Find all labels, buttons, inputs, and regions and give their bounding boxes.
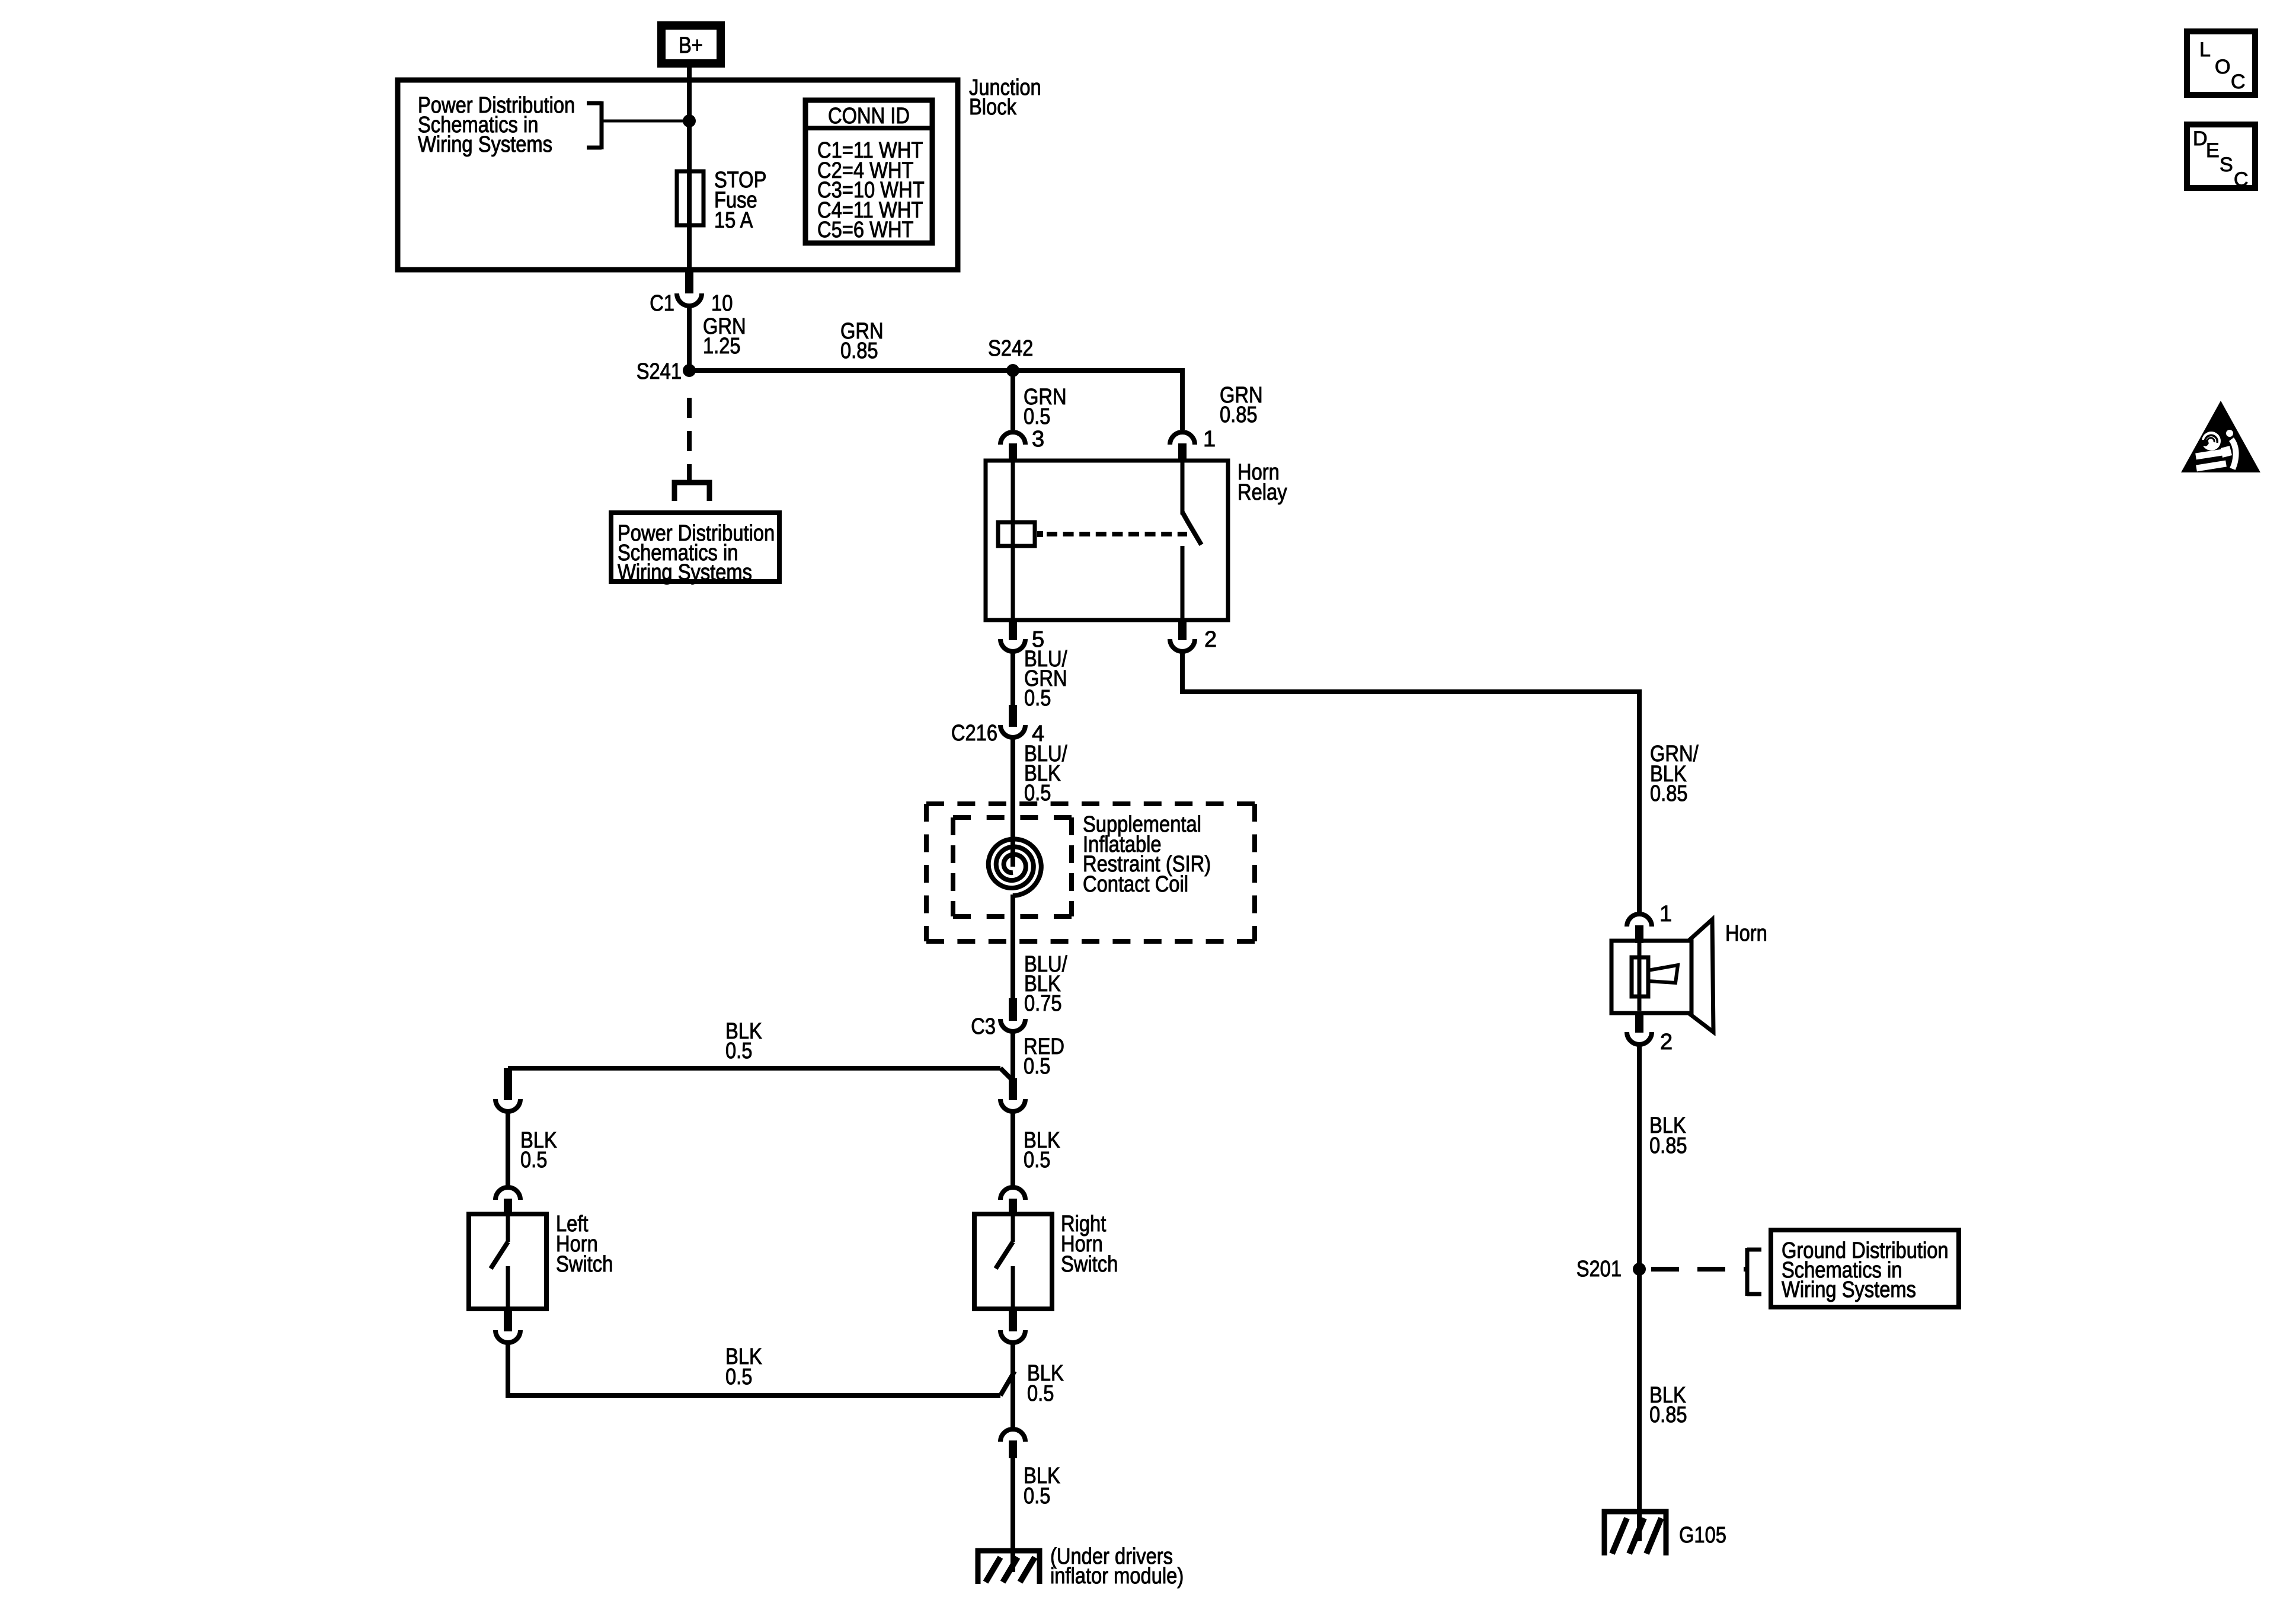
- svg-text:1: 1: [1659, 902, 1672, 927]
- reference box Power Distribution: [611, 513, 779, 582]
- ground connector pin: [1009, 1440, 1017, 1458]
- wire node to fuse: [687, 121, 692, 174]
- LOC icon box: [2187, 31, 2255, 95]
- horn driver element: [1632, 957, 1648, 996]
- connector pin 1 pin: [1178, 443, 1187, 462]
- connector C1 pin: [685, 270, 693, 293]
- connector pin 5 pin: [1009, 620, 1017, 640]
- connector C216 pin: [1009, 705, 1017, 727]
- right switch dome: [1000, 1187, 1025, 1200]
- wire right branch: [1011, 1111, 1015, 1186]
- svg-text:0.5: 0.5: [1024, 404, 1050, 429]
- connector pin 5 cup: [1000, 639, 1025, 651]
- svg-text:0.5: 0.5: [1024, 1148, 1050, 1173]
- right branch pin: [1009, 1078, 1017, 1100]
- wire diagonal join bottom: [1000, 1371, 1015, 1395]
- svg-text:L: L: [2199, 39, 2211, 61]
- SIR outer dashed box: [926, 801, 1255, 806]
- junction block outline: [398, 80, 958, 270]
- svg-text:C216: C216: [951, 721, 997, 746]
- svg-text:G105: G105: [1679, 1523, 1726, 1548]
- relay switch blade: [1182, 512, 1201, 545]
- right switch bottom cup: [1000, 1330, 1025, 1343]
- left switch pin: [504, 1199, 512, 1216]
- svg-text:Wiring Systems: Wiring Systems: [618, 560, 752, 585]
- connector pin 2 cup: [1170, 639, 1195, 651]
- svg-text:O: O: [2215, 56, 2230, 78]
- relay coil wire: [1011, 462, 1015, 620]
- SIR contact coil spiral: [989, 839, 1041, 896]
- wire horn to G105: [1637, 1044, 1642, 1541]
- DESC icon box: [2187, 124, 2255, 188]
- bracket for power distribution reference: [600, 101, 604, 149]
- svg-text:0.85: 0.85: [1650, 781, 1688, 806]
- reference staple symbol: [674, 483, 709, 501]
- svg-text:Contact Coil: Contact Coil: [1083, 872, 1188, 897]
- dashed wire S201 to reference: [1651, 1267, 1747, 1272]
- wire C216 to SIR coil: [1011, 737, 1015, 867]
- svg-text:2: 2: [1660, 1030, 1673, 1055]
- svg-text:S: S: [2220, 154, 2233, 176]
- svg-text:E: E: [2206, 139, 2220, 162]
- ground distribution reference box: [1771, 1230, 1959, 1307]
- svg-text:CONN ID: CONN ID: [828, 104, 910, 129]
- svg-text:0.85: 0.85: [1220, 402, 1258, 427]
- ground connector dome: [1000, 1429, 1025, 1442]
- svg-text:0.5: 0.5: [1024, 686, 1051, 711]
- wire right switch to ground connector: [1011, 1343, 1015, 1427]
- wire SIR coil to C3: [1011, 895, 1015, 1001]
- connector pin 3 dome: [1000, 432, 1025, 445]
- svg-text:1: 1: [1203, 427, 1216, 452]
- relay dashed link: [1047, 532, 1187, 536]
- left branch cup: [495, 1099, 520, 1111]
- svg-text:0.5: 0.5: [1024, 1054, 1050, 1079]
- svg-text:1.25: 1.25: [703, 334, 741, 359]
- svg-text:0.75: 0.75: [1024, 991, 1062, 1016]
- horn relay box: [986, 461, 1228, 620]
- horn speaker cone: [1689, 919, 1713, 1032]
- splice S201 dot: [1633, 1263, 1646, 1276]
- right switch bottom pin: [1009, 1309, 1017, 1331]
- wire to under-dash ground: [1011, 1458, 1015, 1572]
- SIR warning triangle icon: [2181, 401, 2260, 472]
- right branch cup: [1000, 1099, 1025, 1111]
- svg-text:D: D: [2193, 127, 2208, 150]
- connector C3 cup: [1000, 1019, 1025, 1031]
- svg-text:2: 2: [1204, 627, 1217, 652]
- svg-text:3: 3: [1032, 427, 1044, 452]
- left switch blade: [491, 1242, 508, 1269]
- svg-text:B+: B+: [679, 33, 703, 58]
- relay coil: [998, 522, 1035, 546]
- wire B+ to junction block: [687, 63, 692, 124]
- wire left down and bottom run: [508, 1343, 1000, 1395]
- svg-text:C3: C3: [971, 1014, 996, 1039]
- svg-text:0.5: 0.5: [1024, 1484, 1050, 1509]
- svg-text:Horn: Horn: [1725, 921, 1767, 946]
- splice S241 dot: [683, 364, 696, 377]
- right switch blade: [996, 1242, 1013, 1269]
- dashed wire S241 to reference: [687, 398, 692, 481]
- left horn switch box: [469, 1214, 546, 1309]
- horn pin 2 cup: [1627, 1032, 1652, 1044]
- fuse STOP 15A symbol: [677, 171, 703, 225]
- right switch contact: [1011, 1266, 1015, 1306]
- wire S242 down to relay pin3: [1011, 370, 1015, 430]
- connector pin 3 pin: [1009, 443, 1017, 462]
- left switch bottom cup: [495, 1330, 520, 1343]
- connector C3 pin: [1009, 998, 1017, 1021]
- connector C1 cup: [677, 293, 702, 306]
- right switch pin: [1009, 1199, 1017, 1216]
- ground symbol G105: [1604, 1512, 1666, 1555]
- wire left branch: [506, 1111, 510, 1186]
- power symbol B+ box: [661, 25, 721, 63]
- svg-text:Block: Block: [969, 95, 1017, 120]
- relay switch wire from pin 1: [1181, 462, 1185, 515]
- relay switch contact: [1181, 546, 1185, 620]
- wire pin5 to C216: [1011, 651, 1015, 707]
- left switch bottom pin: [504, 1309, 512, 1331]
- svg-text:inflator module): inflator module): [1050, 1564, 1184, 1589]
- horn trumpet: [1648, 965, 1678, 983]
- svg-text:0.5: 0.5: [725, 1039, 752, 1063]
- svg-text:15 A: 15 A: [714, 208, 753, 233]
- connector pin 2 pin: [1178, 620, 1187, 640]
- CONN ID separator: [805, 126, 932, 130]
- left branch pin: [504, 1068, 512, 1100]
- svg-text:S242: S242: [988, 336, 1033, 361]
- svg-text:Switch: Switch: [556, 1252, 613, 1277]
- svg-text:0.85: 0.85: [1649, 1403, 1687, 1427]
- svg-text:S241: S241: [637, 359, 682, 384]
- horn box: [1611, 941, 1691, 1013]
- right horn switch box: [974, 1214, 1052, 1309]
- wire bracket to node: [602, 120, 689, 123]
- svg-text:C1: C1: [650, 291, 674, 316]
- wire S241 to S242 to relay pin1 corner: [689, 370, 1182, 430]
- SIR inner dashed box: [953, 815, 1072, 820]
- horn pin 1 dome: [1627, 914, 1652, 927]
- svg-text:C: C: [2234, 168, 2249, 191]
- bracket for ground distribution reference: [1745, 1248, 1750, 1296]
- svg-text:10: 10: [711, 291, 733, 316]
- svg-text:Wiring Systems: Wiring Systems: [418, 132, 552, 157]
- svg-text:S201: S201: [1576, 1257, 1622, 1282]
- wire C1 to S241: [687, 306, 692, 370]
- svg-text:0.5: 0.5: [520, 1148, 547, 1173]
- wire relay pin 2 to horn: [1182, 651, 1639, 912]
- svg-text:0.5: 0.5: [725, 1365, 752, 1389]
- wire diagonal join at C3 branch: [1000, 1068, 1013, 1081]
- svg-text:C5=6 WHT: C5=6 WHT: [817, 218, 914, 242]
- svg-text:C: C: [2231, 71, 2246, 93]
- svg-text:0.85: 0.85: [1649, 1133, 1687, 1158]
- left switch wire top: [506, 1216, 510, 1242]
- ground symbol (under drivers inflator module): [978, 1551, 1040, 1584]
- horn pin 1 pin: [1635, 925, 1643, 943]
- wire top BLK run: [508, 1066, 1000, 1071]
- svg-text:0.85: 0.85: [840, 338, 878, 363]
- horn pin 2 pin: [1635, 1013, 1643, 1033]
- svg-text:0.5: 0.5: [1027, 1381, 1054, 1406]
- svg-text:Wiring Systems: Wiring Systems: [1782, 1277, 1916, 1302]
- left switch contact: [506, 1266, 510, 1306]
- horn wire internal: [1638, 943, 1642, 1011]
- junction node dot: [683, 114, 696, 127]
- wire C3 down: [1011, 1031, 1015, 1081]
- right switch wire top: [1011, 1216, 1015, 1242]
- svg-text:Switch: Switch: [1061, 1252, 1118, 1277]
- relay coil stub: [1037, 531, 1043, 537]
- svg-text:Relay: Relay: [1237, 480, 1287, 505]
- left switch dome: [495, 1187, 520, 1200]
- connector pin 1 dome: [1170, 432, 1195, 445]
- connector C216 cup: [1000, 725, 1025, 737]
- CONN ID table box: [805, 100, 932, 243]
- splice S242 dot: [1006, 364, 1019, 377]
- wire through fuse: [687, 174, 692, 270]
